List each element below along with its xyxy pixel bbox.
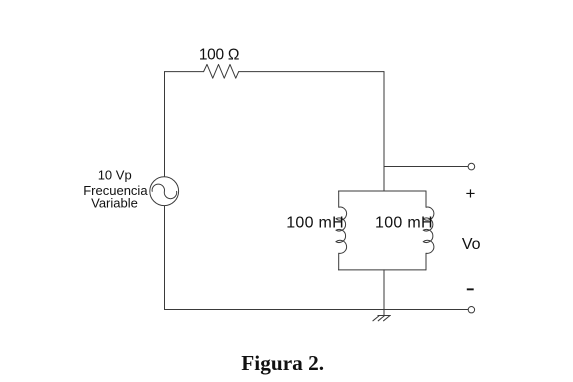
svg-text:100 mH: 100 mH [375,215,433,232]
wire center vertical lower [383,270,385,310]
inductor L1 100mH left [336,191,347,270]
svg-text:+: + [466,184,476,203]
svg-text:Variable: Variable [91,196,138,211]
wire parallel box top [339,190,427,192]
svg-text:100 Ω: 100 Ω [199,47,239,64]
svg-text:10 Vp: 10 Vp [98,168,132,183]
wire output branch top [384,166,468,168]
terminal circle bottom output [468,307,474,313]
wire top-right horizontal [239,71,384,73]
inductor L2 100mH right [423,191,434,270]
wire left vertical lower [164,206,166,309]
wire top-left horizontal [165,71,204,73]
AC source V1 circle [150,177,179,206]
resistor R 100 ohm zigzag [204,64,239,78]
label minus [467,288,474,290]
terminal circle top output [468,163,475,170]
wire parallel box bottom [339,269,427,271]
AC source sine wave [152,184,177,199]
svg-text:100 mH: 100 mH [286,215,344,232]
wire left vertical upper [164,72,166,177]
wire bottom horizontal [165,309,469,311]
svg-text:Vo: Vo [462,236,481,253]
wire right vertical upper [383,72,385,191]
ground symbol [373,310,391,321]
svg-text:Figura 2.: Figura 2. [241,351,324,375]
